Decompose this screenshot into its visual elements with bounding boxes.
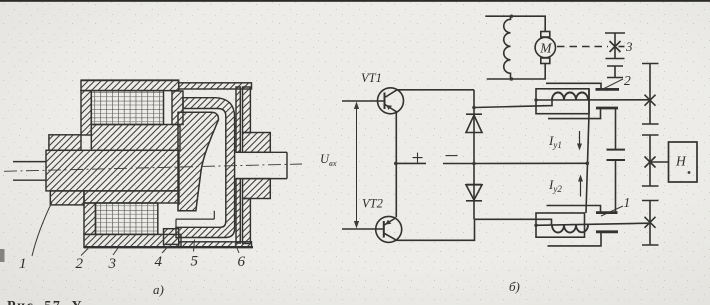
motor brush top [541,32,550,38]
supply stub plus [396,162,426,164]
clutch 2 coil box [536,89,589,114]
dim arrow top [354,102,359,110]
clutch 2 frame bottom [548,109,601,119]
stator left wall top [81,91,91,135]
clutch 2 frame top [546,83,601,88]
stator left wall bottom [84,203,96,234]
svg-text:Н: Н [675,154,687,169]
coupling X mid [645,157,656,168]
cover outer wall top [243,87,251,133]
svg-text:б): б) [509,279,520,294]
coupling bars middle [607,150,626,160]
svg-text:M: M [539,41,552,56]
VT2 base bar [383,221,385,238]
svg-text:2: 2 [624,73,631,88]
svg-text:4: 4 [155,254,163,270]
diode VD1 [473,90,475,164]
clutch 1 upper disc bar [596,211,618,214]
common return line [586,89,589,213]
cover bottom plate [179,242,252,247]
clutch 2 armature line to shaft [536,99,650,101]
motor M circle [535,37,555,57]
middle connector shaft [615,109,617,149]
leader 6 [235,243,239,253]
VT1 base wire [342,100,385,102]
cover inner wall top [236,87,240,152]
leader for label 2 [601,79,623,90]
centerline [4,164,302,171]
load box H [669,142,698,182]
node: inductor top junction [510,15,513,18]
diode VD2 [473,164,475,220]
inductor L [504,16,511,79]
current arrow Iy2 [580,179,582,197]
leader 5 [194,240,195,252]
wire: supply to return line [474,162,587,164]
wire VT1 collector to coil [474,100,552,108]
cover flange bottom [243,179,271,199]
VT2 emitter [384,218,396,226]
wire: motor top rail [485,16,545,31]
output shaft segment 2 [642,135,659,186]
clutch 2 lower disc bar [596,107,618,110]
coupling X3 [610,41,621,52]
clutch 1 frame bottom [548,233,602,246]
leader 4 [162,246,169,253]
svg-text:VT2: VT2 [362,197,383,211]
scan smudge left edge [0,249,5,262]
leader 3 [619,46,625,48]
svg-text:VT1: VT1 [361,71,382,85]
stator pole arm top [172,91,183,125]
rotor cone (bell) [178,112,218,211]
svg-text:2: 2 [76,256,84,272]
coil Y2 (clutch 1) [552,225,588,233]
stator pole band top [91,125,180,151]
dimension line Uvx [356,103,358,227]
wire: motor bottom rail [487,64,546,80]
VT1 collector [386,90,475,97]
stator flange top-left [49,135,81,151]
svg-text:1: 1 [19,256,27,272]
current arrow Iy1 [579,131,581,148]
coil grid block top [91,91,163,125]
VT2 collector [385,219,475,240]
svg-text:а): а) [153,282,164,297]
VT2 base wire [342,228,384,230]
svg-text:1: 1 [624,195,631,210]
clutch 1 coil box [536,213,585,237]
VT1 emitter arrowhead [386,105,392,110]
stator bottom band [84,234,181,247]
stator top band [81,80,179,90]
scan edge top [0,0,710,2]
motor brush bottom [541,58,550,64]
stator right piece bottom [164,229,179,245]
coil grid block bottom [96,203,158,234]
leader 2 [81,249,88,256]
leader 3 [113,248,118,255]
output shaft segment 1 [642,64,659,125]
node: inductor bottom junction [510,77,513,80]
coupling X top [645,95,656,106]
stator pole band bottom [84,191,179,203]
clutch 1 lower disc bar [596,230,618,233]
dim arrow bottom [354,221,359,229]
VT1 emitter [385,105,397,112]
svg-text:6: 6 [238,254,246,270]
rotor hub [46,150,179,191]
transistor VT2 circle [376,216,402,242]
svg-text:3: 3 [625,39,633,54]
output shaft segment 3 [642,201,659,246]
supply stub minus wire [443,163,474,165]
middle connector lower [615,161,617,213]
cover flange top [243,133,271,153]
coupling X bottom [645,217,656,228]
svg-text:5: 5 [191,254,199,270]
clutch 1 frame top [547,206,601,212]
leader for label 1 (clutch) [601,206,623,216]
coil Y1 (clutch 2) [552,93,588,100]
minus sign [446,155,458,157]
leader 1 [32,202,52,256]
heavy bottom edge of stator [84,246,253,248]
node: clutch1 line left [534,224,537,227]
node: return mid junction [586,162,590,166]
input shaft top bar [605,33,625,59]
cover top plate [179,83,252,89]
node: emitter mid junction [394,162,398,166]
VT1 base bar [384,93,386,110]
stator flange bottom-left [50,191,84,205]
heavy top edge of stator band [81,79,179,81]
cover outer wall bottom [243,199,251,244]
shaft right [236,152,287,178]
shaft left [13,162,46,181]
clamping ring under cone [176,211,214,228]
clutch 1 armature line to shaft [536,223,650,225]
cup (powder chamber) [176,98,235,238]
svg-text:3: 3 [108,256,117,272]
emitter rail [395,113,397,218]
VT2 emitter arrowhead [385,220,391,225]
cover inner wall bottom [236,179,240,243]
svg-text:Рис. 57. У: Рис. 57. У [7,299,83,305]
wire VT2 collector to coil [475,219,552,225]
clutch 2 upper disc bar [596,88,620,91]
wire to load H [650,161,669,163]
transistor VT1 circle [378,88,404,114]
node: clutch2 line left [534,98,537,101]
input shaft lower piece [607,66,623,78]
dashed motor shaft link [557,46,608,48]
plus sign [413,153,423,163]
